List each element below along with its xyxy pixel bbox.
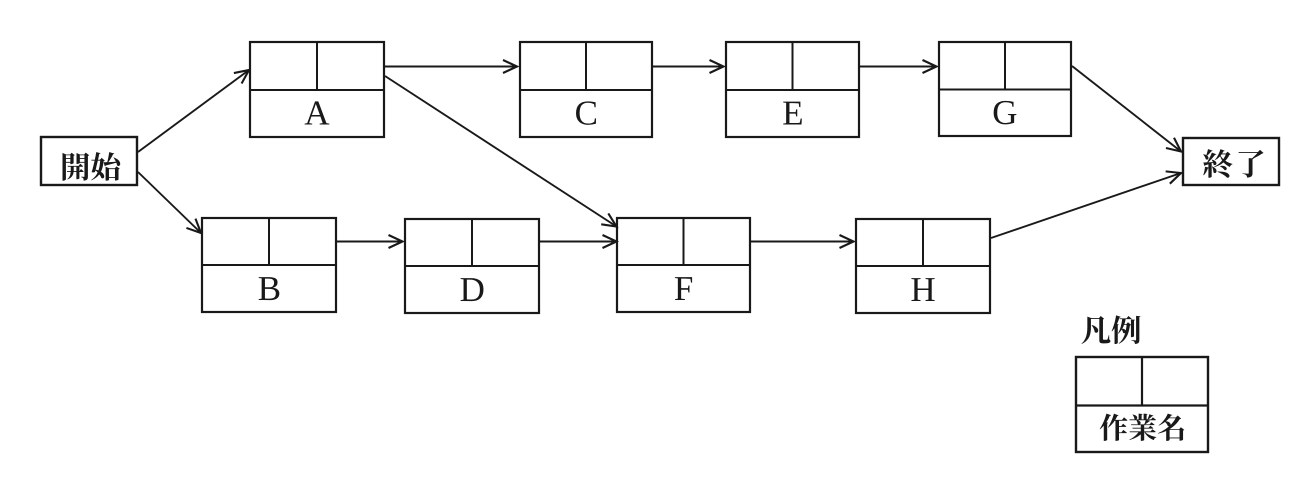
task label A xyxy=(305,101,330,124)
arrow start to A xyxy=(138,70,249,152)
task box H outline xyxy=(856,219,990,313)
task box C horizontal divider xyxy=(520,89,652,91)
task box A outline xyxy=(250,42,384,137)
task box B outline xyxy=(202,218,336,312)
task box E vertical divider xyxy=(792,42,794,90)
legend label 作業名 xyxy=(1100,414,1185,441)
task label G xyxy=(994,101,1017,125)
task label C xyxy=(576,101,596,125)
task box D vertical divider xyxy=(471,219,473,266)
task box G horizontal divider xyxy=(939,89,1071,91)
legend box vertical divider xyxy=(1141,357,1143,406)
arrow D to F xyxy=(540,241,617,243)
legend title 凡例 xyxy=(1081,315,1140,344)
arrow F to H xyxy=(751,241,854,243)
task label D xyxy=(461,278,484,301)
arrow G to end xyxy=(1072,66,1181,152)
arrow H to end xyxy=(991,173,1181,238)
task box A vertical divider xyxy=(316,42,318,90)
task box G outline xyxy=(939,42,1071,136)
task box G vertical divider xyxy=(1004,42,1006,90)
task box B vertical divider xyxy=(268,218,270,265)
legend box outline xyxy=(1076,357,1208,452)
task box C outline xyxy=(520,42,652,137)
start node box (開始) xyxy=(41,137,137,185)
arrow B to D xyxy=(337,241,403,243)
legend box horizontal divider xyxy=(1076,404,1208,406)
task box D horizontal divider xyxy=(405,265,539,267)
task box E horizontal divider xyxy=(726,89,859,91)
task box C vertical divider xyxy=(585,42,587,90)
arrow A to F xyxy=(385,76,617,227)
arrow C to E xyxy=(653,66,724,68)
task box B horizontal divider xyxy=(202,264,336,266)
task label B xyxy=(259,277,280,300)
arrow A to C xyxy=(385,66,517,68)
task box A horizontal divider xyxy=(250,89,384,91)
task box D outline xyxy=(405,219,539,313)
task box F outline xyxy=(617,218,750,312)
end label 終了 xyxy=(1203,149,1263,178)
task box H vertical divider xyxy=(922,219,924,266)
task box F vertical divider xyxy=(683,218,685,265)
arrow E to G xyxy=(860,66,937,68)
task box E outline xyxy=(726,42,859,137)
task label F xyxy=(675,277,692,300)
start label 開始 xyxy=(63,152,121,181)
end node box (終了) xyxy=(1183,138,1279,185)
task box H horizontal divider xyxy=(856,265,990,267)
arrow start to B xyxy=(138,172,201,233)
task label E xyxy=(783,102,802,125)
task box F horizontal divider xyxy=(617,264,750,266)
task label H xyxy=(911,278,934,301)
